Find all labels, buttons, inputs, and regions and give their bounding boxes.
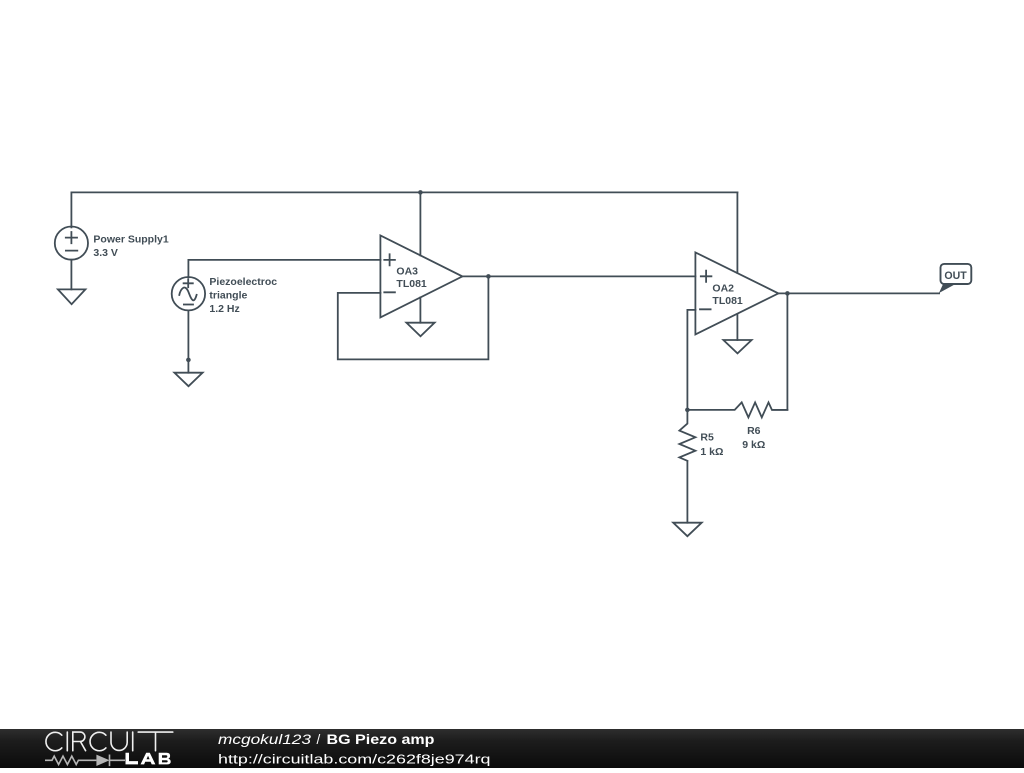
op-amp OA2 TL081	[695, 252, 778, 334]
op-amp OA3 TL081	[380, 235, 462, 317]
power supply Power Supply1 3.3 V	[55, 226, 88, 259]
node piezo ground junction	[186, 358, 191, 363]
label OUT	[944, 270, 967, 282]
label OA3	[396, 265, 418, 277]
wire power supply bottom	[70, 260, 72, 290]
ground power supply	[58, 289, 86, 304]
svg-text:3.3 V: 3.3 V	[93, 247, 118, 259]
logo LAB text	[126, 753, 171, 765]
wire OA3 output to OA2 input	[462, 275, 695, 277]
label R5	[700, 431, 714, 443]
label 1.2 Hz	[209, 303, 239, 315]
svg-text:triangle: triangle	[209, 289, 247, 301]
logo letter U	[111, 732, 127, 750]
logo letter I	[132, 732, 134, 751]
logo letter C	[46, 732, 62, 750]
svg-text:1 kΩ: 1 kΩ	[700, 446, 723, 458]
footer title and url	[0, 729, 560, 768]
label R6	[747, 425, 761, 437]
svg-text:http://circuitlab.com/c262f8je: http://circuitlab.com/c262f8je974rq	[218, 751, 491, 766]
wire OA2 output	[778, 292, 939, 294]
wire piezo to OA3 noninverting input	[188, 259, 380, 261]
label 1 kOhm	[700, 446, 723, 458]
logo letter T	[138, 732, 173, 751]
label TL081 OA3	[396, 278, 427, 290]
wire OA2 V+ drop	[736, 192, 738, 273]
voltage source Piezoelectroc	[172, 277, 205, 310]
resistor R5 1 kOhm	[679, 410, 695, 461]
wire top supply rail	[71, 191, 737, 193]
node junction R5 R6	[685, 408, 690, 413]
flag OUT	[939, 264, 971, 293]
svg-text:BG Piezo amp: BG Piezo amp	[327, 732, 435, 747]
logo resistor	[45, 756, 85, 764]
wire OA3 feedback loop	[338, 276, 489, 359]
svg-text:OA2: OA2	[712, 282, 734, 294]
wire power supply top stub	[70, 192, 72, 227]
wire OA2 feedback drop	[772, 293, 787, 410]
label triangle	[209, 289, 247, 301]
wire R5 bottom to ground	[686, 462, 688, 523]
node junction top rail OA3	[418, 190, 423, 195]
svg-text:TL081: TL081	[712, 295, 743, 307]
label 9 kOhm	[742, 439, 765, 451]
svg-text:OUT: OUT	[944, 270, 967, 282]
svg-text:R6: R6	[747, 425, 761, 437]
ground OA2	[723, 340, 751, 353]
logo letter R	[73, 732, 86, 751]
label Power Supply1	[93, 233, 168, 245]
wire piezo top stub	[187, 260, 189, 278]
ground OA3	[406, 323, 434, 337]
logo letter C	[90, 732, 106, 750]
svg-text:9 kΩ: 9 kΩ	[742, 439, 765, 451]
svg-text:1.2 Hz: 1.2 Hz	[209, 303, 239, 315]
label Piezoelectroc	[209, 276, 277, 288]
svg-text:/: /	[317, 732, 321, 747]
label TL081 OA2	[712, 295, 743, 307]
logo diode	[85, 755, 125, 767]
footer bar	[0, 729, 1024, 768]
svg-text:R5: R5	[700, 431, 714, 443]
label OA2	[712, 282, 734, 294]
wire OA3 V- to ground	[419, 297, 421, 322]
ground R5	[673, 523, 702, 537]
wire OA2 inverting input	[687, 310, 695, 410]
resistor R6 9 kOhm	[687, 402, 787, 417]
svg-text:Piezoelectroc: Piezoelectroc	[209, 276, 277, 288]
node junction OA3 output	[486, 274, 491, 279]
ground piezo	[174, 373, 202, 387]
node junction OA2 output	[785, 291, 790, 296]
wire piezo bottom	[187, 310, 189, 372]
CircuitLab logo	[0, 729, 200, 768]
wire OA3 V+ drop	[419, 192, 421, 255]
label 3.3 V	[93, 247, 118, 259]
svg-text:TL081: TL081	[396, 278, 427, 290]
logo letter I	[66, 732, 68, 751]
svg-text:mcgokul123: mcgokul123	[218, 732, 312, 747]
svg-text:Power Supply1: Power Supply1	[93, 233, 168, 245]
svg-text:OA3: OA3	[396, 265, 418, 277]
wire OA2 V- to ground	[736, 314, 738, 340]
